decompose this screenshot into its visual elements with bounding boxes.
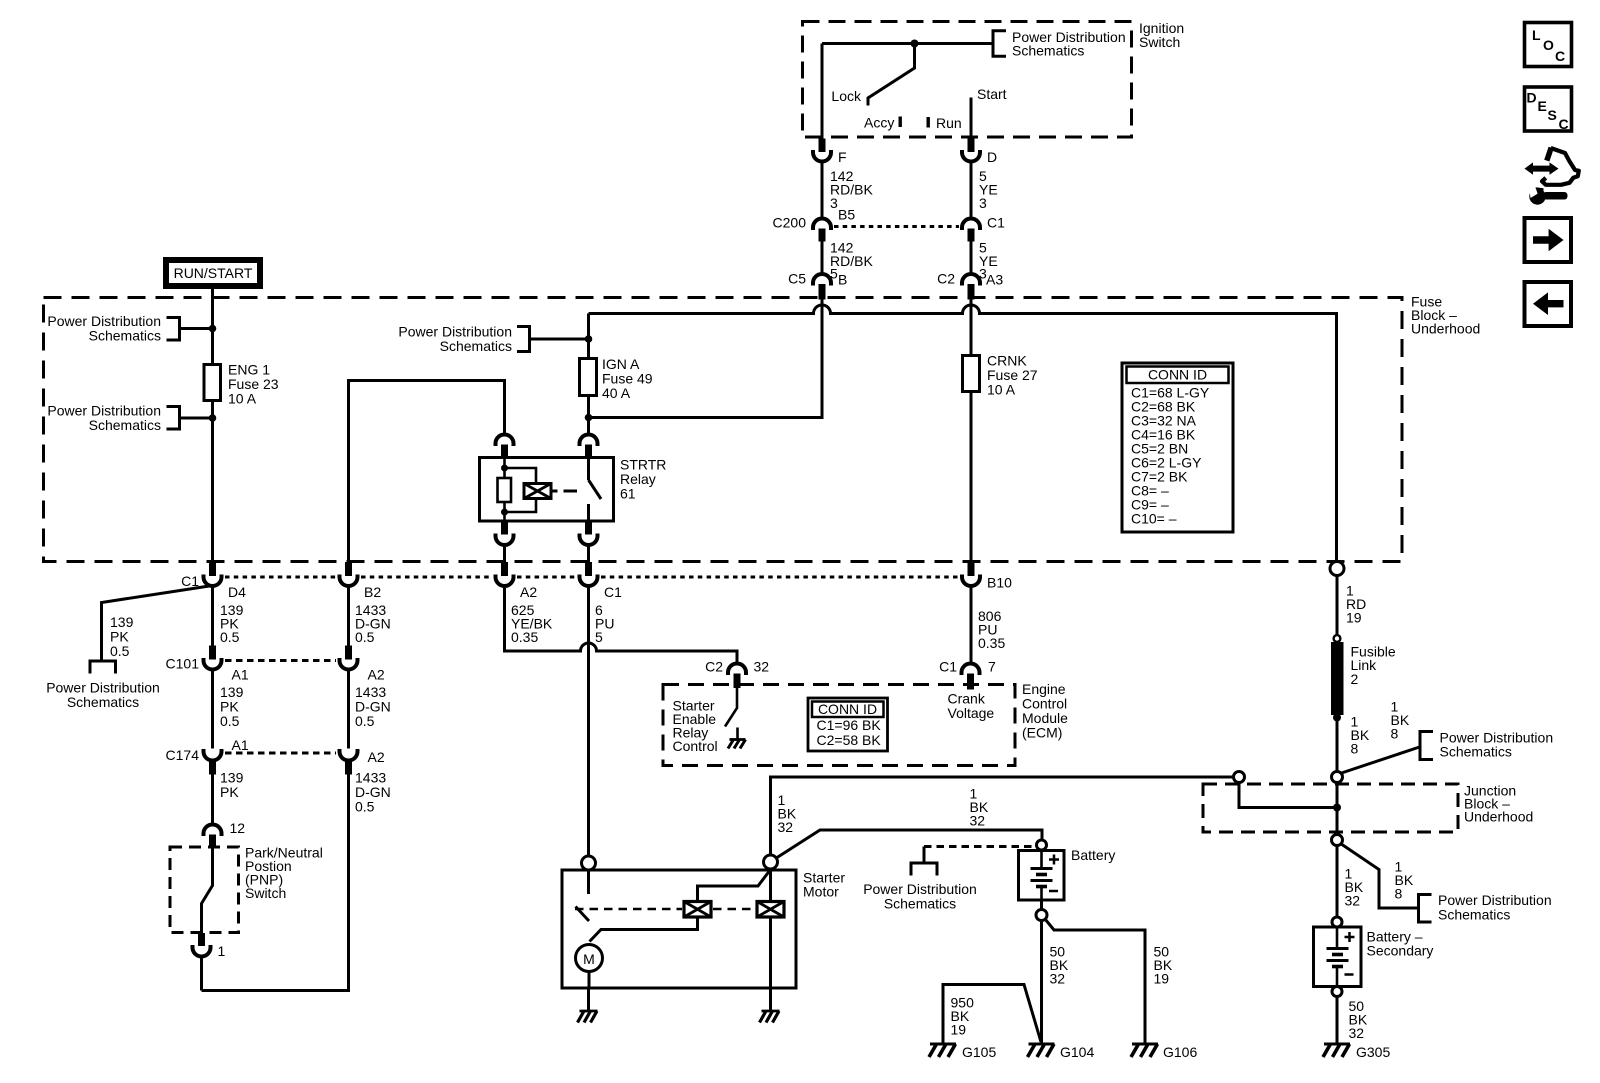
svg-text:A2: A2 xyxy=(520,584,537,600)
PNP switch contact xyxy=(202,848,213,934)
svg-text:0.35: 0.35 xyxy=(511,629,538,645)
svg-text:C5: C5 xyxy=(788,271,806,287)
node junction block right circle xyxy=(1332,772,1343,783)
svg-text:A2: A2 xyxy=(368,667,385,683)
junction block internal wires xyxy=(1239,783,1337,808)
wire 142 RD/BK lower segment xyxy=(821,242,824,275)
ECM internal switch to ground xyxy=(725,688,738,739)
wire C101 to C174 right xyxy=(347,670,350,749)
fuse CRNK Fuse 27 10 A xyxy=(963,353,1038,398)
battery secondary cell plates xyxy=(1327,927,1349,987)
svg-text:19: 19 xyxy=(1154,971,1170,987)
wire battery negative to G104 xyxy=(1040,921,1043,1045)
fuse ENG 1 Fuse 23 10 A xyxy=(204,362,279,407)
wire CRNK fuse to B10 xyxy=(970,392,973,563)
wire starter solenoid ground stub xyxy=(769,988,772,1011)
svg-text:0.35: 0.35 xyxy=(978,635,1005,651)
wire ignition Start branch xyxy=(970,98,973,139)
label wire 50 BK 32 (G305) xyxy=(1349,998,1368,1041)
connector terminal F xyxy=(813,139,847,166)
svg-text:(ECM): (ECM) xyxy=(1022,725,1062,741)
ground starter solenoid xyxy=(760,1011,780,1023)
connector C101 pin A1 xyxy=(166,646,249,683)
svg-text:40 A: 40 A xyxy=(602,385,631,401)
wire to fusible link xyxy=(1336,576,1339,637)
connector PNP pin 12 xyxy=(204,820,246,848)
connector C5 pin B xyxy=(788,271,847,300)
wire diagonal to PDS reference (fusible link) xyxy=(1340,747,1420,774)
wire IGN A upper xyxy=(587,314,590,359)
label wire 5 YE 3 xyxy=(979,168,998,211)
svg-text:B10: B10 xyxy=(987,575,1012,591)
svg-text:Accy: Accy xyxy=(864,115,894,131)
connector terminal D xyxy=(962,139,997,166)
svg-text:3: 3 xyxy=(979,195,987,211)
node fusible link bottom xyxy=(1333,714,1341,722)
label wire 1 BK 8 (junction) xyxy=(1395,859,1414,902)
fuse IGN A Fuse 49 40 A xyxy=(580,356,653,401)
svg-text:E: E xyxy=(1538,98,1547,114)
svg-text:10 A: 10 A xyxy=(228,391,257,407)
node battery secondary top circle xyxy=(1332,917,1342,927)
node relay top xyxy=(501,465,508,472)
wire battery positive to starter terminal xyxy=(776,830,1043,859)
node starter solenoid terminal S xyxy=(582,856,596,870)
wire 5 YE segment xyxy=(970,162,973,220)
coil starter solenoid hold-in xyxy=(757,902,784,918)
power distribution schematics reference (middle) xyxy=(398,323,529,354)
svg-text:Schematics: Schematics xyxy=(89,327,161,343)
svg-text:32: 32 xyxy=(778,819,794,835)
connector C200 pin B5 xyxy=(773,207,856,242)
ground G105 xyxy=(929,1044,996,1060)
svg-text:C2: C2 xyxy=(937,271,955,287)
ground ECM internal xyxy=(728,740,746,749)
wire C101 in-line dashed xyxy=(225,659,336,662)
svg-text:C: C xyxy=(1559,116,1569,132)
svg-text:G305: G305 xyxy=(1356,1044,1390,1060)
svg-text:Schematics: Schematics xyxy=(1440,744,1512,760)
wire bracket to ENG1 node lower xyxy=(180,417,213,420)
svg-text:Motor: Motor xyxy=(803,884,839,900)
svg-text:Schematics: Schematics xyxy=(67,694,139,710)
label wire 50 BK 19 (G106) xyxy=(1154,944,1173,987)
svg-text:Secondary: Secondary xyxy=(1367,943,1434,959)
ignition switch box xyxy=(803,20,1185,137)
svg-text:10 A: 10 A xyxy=(987,382,1016,398)
wire C101 to C174 left xyxy=(211,670,214,749)
relay input connector (coil side) xyxy=(496,435,514,459)
svg-text:C1: C1 xyxy=(987,215,1005,231)
wire from C5 feed down and across to IGN A node xyxy=(589,299,823,418)
wire G105 branch xyxy=(943,985,1041,1045)
wire solenoid coil1 to terminal B xyxy=(698,870,771,902)
wire B2 to A2 C101 xyxy=(347,586,350,646)
node ENG1 upper junction xyxy=(209,325,217,333)
label wire 139 PK 0.5 (diagonal) xyxy=(110,614,134,659)
wire B10 to ECM C1 xyxy=(970,586,973,664)
fusible link 2 xyxy=(1331,642,1396,715)
ground G305 xyxy=(1323,1044,1390,1060)
icon DESC xyxy=(1525,87,1572,132)
svg-text:8: 8 xyxy=(1391,726,1399,742)
svg-text:Run: Run xyxy=(936,115,962,131)
svg-text:5: 5 xyxy=(595,629,603,645)
svg-text:B2: B2 xyxy=(364,584,381,600)
power distribution schematics reference (left lower) xyxy=(47,403,179,434)
battery B1 cell plates xyxy=(1031,851,1053,901)
label wire 1433 D-GN 0.5 (B2) xyxy=(355,602,391,645)
wire battery secondary to G305 xyxy=(1336,997,1339,1045)
wire bracket to ENG1 node xyxy=(180,327,213,330)
power distribution schematics reference (left upper) xyxy=(47,313,179,344)
connector pin B2 xyxy=(340,575,382,601)
svg-text:A1: A1 xyxy=(232,667,249,683)
node junction block bottom circle xyxy=(1332,835,1343,846)
relay internal coil-side wire xyxy=(503,458,506,479)
svg-text:Control: Control xyxy=(673,738,718,754)
svg-text:0.5: 0.5 xyxy=(110,643,130,659)
svg-text:8: 8 xyxy=(1351,741,1359,757)
wire terminal B through coil2 to ground xyxy=(769,869,772,988)
starter solenoid actuator dashed line xyxy=(575,908,755,911)
power distribution schematics reference (fusible link) xyxy=(1420,730,1553,760)
coil relay winding box xyxy=(524,484,551,499)
svg-text:Lock: Lock xyxy=(831,88,862,104)
svg-text:RUN/START: RUN/START xyxy=(174,265,253,281)
label wire 6 PU 5 (C1) xyxy=(595,602,614,645)
node ENG1 lower junction xyxy=(209,414,217,422)
power distribution schematics reference (ignition) xyxy=(993,29,1126,59)
power distribution schematics reference (battery) xyxy=(863,847,977,912)
node battery negative circle xyxy=(1036,910,1047,921)
svg-text:3: 3 xyxy=(830,195,838,211)
node relay bottom xyxy=(501,509,508,516)
wire coil branch top xyxy=(505,468,537,484)
svg-text:S: S xyxy=(1548,107,1557,123)
conn id table (fuse block) xyxy=(1122,363,1233,532)
svg-text:B: B xyxy=(838,272,847,288)
relay switch contact xyxy=(589,458,602,522)
svg-text:O: O xyxy=(1543,37,1554,53)
wire starter feed from junction block xyxy=(771,777,1234,855)
svg-text:C2=58 BK: C2=58 BK xyxy=(817,732,882,748)
svg-text:Underhood: Underhood xyxy=(1411,321,1480,337)
icon arrow back xyxy=(1525,282,1572,326)
starter internal switch xyxy=(576,870,590,921)
wire ENG1 fuse to connector C1 xyxy=(211,401,214,563)
node junction internal xyxy=(1333,804,1341,812)
relay actuator dashed link xyxy=(551,490,577,493)
wire battery dashed feed reference xyxy=(924,845,1037,848)
junction block underhood box xyxy=(1203,783,1533,833)
RUN/START tag box xyxy=(166,260,260,286)
svg-text:G106: G106 xyxy=(1163,1044,1197,1060)
wire coil branch bottom xyxy=(505,499,537,513)
node battery secondary bottom circle xyxy=(1332,987,1342,997)
node ignition junction xyxy=(911,40,919,48)
wire PNP pin1 to loop xyxy=(200,957,203,991)
relay output connector (coil side) xyxy=(496,521,514,545)
wire 142 RD/BK segment xyxy=(821,162,824,220)
label wire 142 RD/BK 5 xyxy=(830,240,873,282)
engine control module box xyxy=(663,681,1068,766)
connector C174 pin A1 xyxy=(166,737,249,775)
label wire 139 PK 0.5 (C101) xyxy=(220,684,244,729)
svg-text:M: M xyxy=(583,951,595,967)
fuse block underhood box xyxy=(44,294,1481,562)
node IGN A lower junction xyxy=(585,414,593,422)
label wire 139 PK 0.5 (D4) xyxy=(220,602,244,645)
connector C101 pin A2 xyxy=(340,646,385,683)
svg-text:2: 2 xyxy=(1351,671,1359,687)
svg-text:A2: A2 xyxy=(368,749,385,765)
svg-text:L: L xyxy=(1532,27,1541,43)
connector ECM C2 pin 32 xyxy=(705,659,769,689)
label wire 142 RD/BK 3 xyxy=(830,168,873,211)
in-line connector row blades xyxy=(209,562,975,576)
svg-text:CONN ID: CONN ID xyxy=(1148,367,1207,383)
label wire 1 BK 8 (below link) xyxy=(1351,714,1370,757)
icon wrench/schematic tool xyxy=(1525,148,1579,205)
svg-text:A3: A3 xyxy=(986,272,1003,288)
wire 5 YE lower segment xyxy=(970,242,973,275)
power distribution schematics reference (junction) xyxy=(1419,892,1552,923)
svg-text:Start: Start xyxy=(977,86,1007,102)
power distribution schematics reference (lower left) xyxy=(46,661,160,710)
label Accy with contact tick xyxy=(864,115,902,131)
icon LOC xyxy=(1525,23,1572,67)
svg-text:Switch: Switch xyxy=(1139,34,1180,50)
label wire 139 PK (C174) xyxy=(220,770,244,801)
label wire 1 BK 8 (upper right) xyxy=(1391,699,1410,742)
wire fusible link to junction xyxy=(1336,715,1339,772)
wire 625 A2 to ECM C2 with hop xyxy=(505,586,738,664)
svg-text:Schematics: Schematics xyxy=(440,338,512,354)
connector ECM C1 pin 7 xyxy=(939,659,996,690)
node fusible link top circle xyxy=(1334,635,1341,642)
label wire 5 YE 3 lower xyxy=(979,240,998,282)
wire C200 in-line connector dotted xyxy=(834,225,959,228)
svg-text:0.5: 0.5 xyxy=(220,629,240,645)
svg-text:Voltage: Voltage xyxy=(948,705,995,721)
wire relay C1 to starter motor xyxy=(587,586,590,856)
connector pin A2 xyxy=(496,575,538,601)
wire C174 in-line dashed xyxy=(225,752,336,755)
relay output connector (switch side) xyxy=(580,521,598,545)
svg-text:0.5: 0.5 xyxy=(355,799,375,815)
label wire 950 BK 19 xyxy=(951,995,975,1038)
svg-text:C1=96 BK: C1=96 BK xyxy=(817,717,882,733)
label wire 1433 D-GN 0.5 (C101) xyxy=(355,684,391,729)
connector pin C1 (relay switch out) xyxy=(580,575,623,601)
label wire 625 YE/BK 0.35 (A2) xyxy=(511,602,553,645)
wire C174 to PNP switch xyxy=(211,775,214,826)
svg-text:32: 32 xyxy=(1345,893,1361,909)
label wire 806 PU 0.35 (B10) xyxy=(978,608,1005,651)
in-line connector row dotted line xyxy=(225,576,958,579)
starter motor box xyxy=(562,870,845,989)
relay input connector (switch side) xyxy=(580,435,598,459)
ground G106 xyxy=(1131,1044,1197,1060)
battery secondary box xyxy=(1314,927,1434,987)
svg-text:Schematics: Schematics xyxy=(1438,907,1510,923)
svg-text:B5: B5 xyxy=(838,207,855,223)
svg-text:A1: A1 xyxy=(232,737,249,753)
svg-text:PK: PK xyxy=(220,784,239,800)
svg-text:D4: D4 xyxy=(228,584,246,600)
connector C200 pin C1 xyxy=(962,215,1005,242)
wire CRNK feed xyxy=(970,299,973,356)
motor M circle xyxy=(576,945,603,972)
wire relay outputs to fuse block edge xyxy=(505,545,589,562)
svg-text:1: 1 xyxy=(218,943,226,959)
svg-text:Schematics: Schematics xyxy=(884,896,956,912)
svg-text:C174: C174 xyxy=(166,747,200,763)
svg-text:32: 32 xyxy=(1349,1025,1365,1041)
icon arrow next xyxy=(1525,218,1572,262)
wire battery box to negative xyxy=(1040,900,1043,910)
svg-text:G105: G105 xyxy=(962,1044,996,1060)
svg-text:8: 8 xyxy=(1395,886,1403,902)
connector C2 pin A3 xyxy=(937,271,1003,300)
wire junction to battery secondary xyxy=(1336,846,1339,918)
connector C1 pin D4 xyxy=(181,573,246,600)
wire solenoid coil1 to motor xyxy=(590,917,698,942)
svg-text:12: 12 xyxy=(230,820,246,836)
svg-text:0.5: 0.5 xyxy=(220,713,240,729)
svg-text:0.5: 0.5 xyxy=(355,629,375,645)
svg-text:32: 32 xyxy=(1050,971,1066,987)
wire diagonal to PDS reference xyxy=(102,586,213,662)
relay internal wire below resistor xyxy=(503,502,506,521)
ground G104 xyxy=(1028,1044,1095,1060)
svg-text:Battery: Battery xyxy=(1071,847,1115,863)
svg-text:0.5: 0.5 xyxy=(355,713,375,729)
wire ignition F branch xyxy=(821,44,824,139)
node IGN A upper junction xyxy=(585,335,593,343)
label wire 1433 D-GN 0.5 (C174) xyxy=(355,770,391,815)
label wire 50 BK 32 (G104) xyxy=(1050,944,1069,987)
wire junction vertical xyxy=(1336,783,1339,835)
op STRTR relay box xyxy=(480,457,667,522)
svg-text:61: 61 xyxy=(620,486,636,502)
wire RUN/START to ENG1 fuse xyxy=(211,289,214,365)
node fuse block output circle xyxy=(1330,562,1344,576)
svg-text:32: 32 xyxy=(970,813,986,829)
wire motor to ground xyxy=(588,972,591,989)
wire bracket to IGN A node xyxy=(530,338,589,341)
wire diagonal to PDS reference (junction) xyxy=(1341,844,1419,909)
svg-text:Schematics: Schematics xyxy=(1012,43,1084,59)
svg-text:C10= –: C10= – xyxy=(1131,511,1177,527)
label wire 1 BK 32 (left) xyxy=(778,792,797,835)
connector C174 pin A2 xyxy=(340,749,385,775)
label wire 1 RD 19 xyxy=(1346,583,1366,626)
node battery positive circle xyxy=(1037,840,1047,850)
park/neutral position switch box xyxy=(170,845,323,933)
connector PNP pin 1 xyxy=(193,933,226,959)
label starter enable relay control xyxy=(673,698,718,755)
svg-text:C1: C1 xyxy=(604,584,622,600)
svg-text:G104: G104 xyxy=(1060,1044,1094,1060)
label wire 1 BK 32 (right) xyxy=(970,786,989,829)
svg-text:Switch: Switch xyxy=(245,885,286,901)
svg-text:C1: C1 xyxy=(939,659,957,675)
svg-text:7: 7 xyxy=(988,659,996,675)
svg-text:F: F xyxy=(838,149,847,165)
connector pin B10 xyxy=(962,575,1012,591)
label crank voltage xyxy=(948,691,995,722)
node starter battery terminal B xyxy=(764,855,778,869)
svg-text:D: D xyxy=(1527,90,1537,106)
svg-text:Underhood: Underhood xyxy=(1464,809,1533,825)
svg-text:19: 19 xyxy=(951,1022,967,1038)
svg-text:19: 19 xyxy=(1346,610,1362,626)
battery B1 box xyxy=(1019,847,1116,900)
label Run with contact tick xyxy=(927,115,962,131)
main bus IGN A to right with hops xyxy=(589,305,1337,562)
coil starter solenoid pull-in xyxy=(684,902,711,918)
wire ignition feed horizontal xyxy=(822,42,993,45)
svg-text:C: C xyxy=(1555,48,1565,64)
svg-text:C101: C101 xyxy=(166,656,200,672)
svg-text:C2: C2 xyxy=(705,659,723,675)
wire starter motor ground stub xyxy=(587,988,590,1011)
svg-text:CONN ID: CONN ID xyxy=(818,701,877,717)
wire relay coil feed to B2 xyxy=(349,381,505,563)
ground starter motor xyxy=(578,1011,598,1023)
wire C1 to C101 xyxy=(211,586,214,646)
wire 1433 down to loop xyxy=(202,775,349,991)
label wire 1 BK 32 (junction) xyxy=(1345,866,1364,909)
svg-text:D: D xyxy=(987,149,997,165)
svg-text:C200: C200 xyxy=(773,215,807,231)
conn id table (ECM) xyxy=(808,698,888,751)
node junction block left circle xyxy=(1234,772,1245,783)
svg-text:32: 32 xyxy=(754,659,770,675)
wire IGN A fuse to relay xyxy=(587,396,590,436)
resistor relay internal xyxy=(498,478,512,502)
svg-text:Schematics: Schematics xyxy=(89,417,161,433)
ignition switch lock lever xyxy=(868,44,915,106)
wire battery negative to G106 xyxy=(1045,919,1145,1044)
